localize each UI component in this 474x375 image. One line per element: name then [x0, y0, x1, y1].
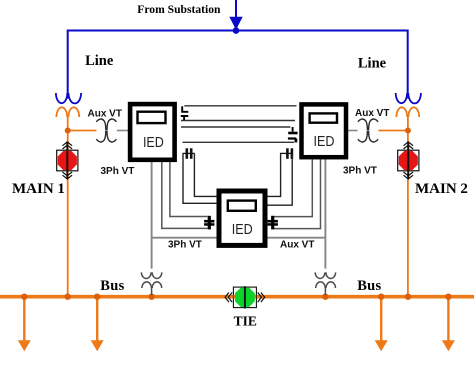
svg-text:Aux VT: Aux VT: [88, 108, 122, 119]
svg-text:MAIN 1: MAIN 1: [12, 181, 65, 197]
svg-text:IED: IED: [314, 133, 335, 149]
svg-text:MAIN 2: MAIN 2: [415, 181, 468, 197]
svg-text:Aux VT: Aux VT: [280, 239, 314, 250]
svg-text:IED: IED: [143, 134, 164, 150]
svg-text:3Ph VT: 3Ph VT: [168, 239, 202, 250]
svg-text:TIE: TIE: [234, 314, 257, 329]
svg-text:Bus: Bus: [357, 278, 381, 294]
svg-text:3Ph VT: 3Ph VT: [343, 166, 377, 177]
svg-text:Line: Line: [85, 53, 114, 69]
svg-text:IED: IED: [232, 221, 253, 237]
svg-text:Aux VT: Aux VT: [355, 108, 389, 119]
svg-text:Line: Line: [358, 56, 387, 72]
svg-text:From Substation: From Substation: [137, 3, 221, 16]
svg-text:3Ph VT: 3Ph VT: [101, 166, 135, 177]
svg-text:Bus: Bus: [100, 278, 124, 294]
